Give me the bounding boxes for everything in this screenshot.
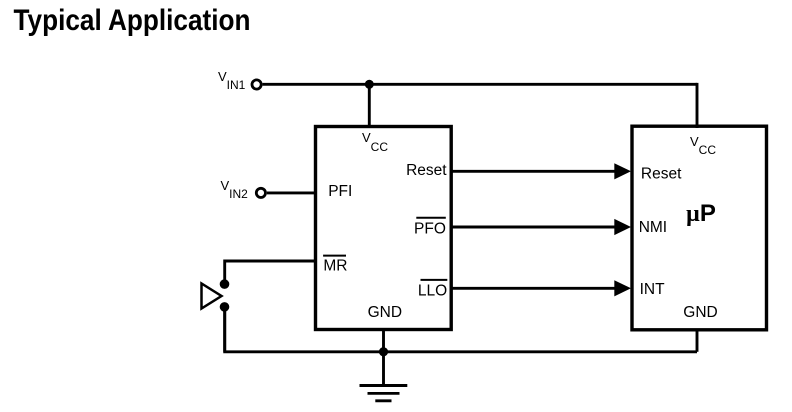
- overline for MR: [323, 255, 346, 257]
- ground symbol bar 2: [368, 392, 400, 395]
- wire VIN1 to VCC rail: [263, 83, 697, 86]
- svg-text:Typical Application: Typical Application: [14, 4, 251, 37]
- overline for LLO: [421, 279, 448, 281]
- svg-text:Reset: Reset: [406, 162, 447, 179]
- wire PFO output: [451, 226, 616, 229]
- wire ground rail to uP GND pin: [696, 330, 699, 352]
- ground symbol stem: [382, 352, 385, 386]
- pushbutton bottom contact dot: [220, 302, 230, 312]
- arrowhead Reset to uP: [614, 163, 631, 179]
- pushbutton actuator triangle: [202, 284, 222, 309]
- junction VCC node: [365, 80, 374, 89]
- wire supervisor GND pin to ground rail: [382, 330, 385, 352]
- svg-text:Reset: Reset: [641, 165, 682, 182]
- supervisor IC U1: [316, 127, 452, 330]
- wire ground rail: [225, 307, 697, 352]
- wire LLO output: [451, 287, 616, 290]
- overline for PFO: [416, 217, 446, 219]
- arrowhead LLO to INT: [614, 280, 631, 296]
- svg-text:LLO: LLO: [418, 283, 447, 300]
- svg-text:MR: MR: [323, 258, 347, 275]
- ground symbol bar 3: [375, 399, 391, 402]
- svg-text:GND: GND: [683, 304, 717, 321]
- wire VCC rail to uP VCC pin: [696, 84, 697, 128]
- pushbutton top contact dot: [220, 279, 230, 289]
- terminal VIN1: [252, 80, 261, 89]
- svg-text:PFI: PFI: [328, 183, 352, 200]
- wire VCC rail to supervisor VCC pin: [368, 84, 371, 128]
- wire pushbutton bottom contact to ground rail: [223, 307, 226, 352]
- arrowhead PFO to NMI: [614, 219, 631, 235]
- svg-text:NMI: NMI: [639, 219, 667, 236]
- svg-text:INT: INT: [640, 281, 666, 298]
- junction ground node: [379, 347, 388, 356]
- svg-text:PFO: PFO: [414, 220, 446, 237]
- terminal VIN2: [256, 188, 265, 197]
- wire Reset output: [451, 170, 616, 173]
- svg-text:µP: µP: [686, 200, 716, 227]
- microprocessor U2: [632, 126, 767, 330]
- wire VIN2 to PFI pin: [267, 191, 316, 194]
- ground symbol bar 1: [360, 384, 408, 387]
- wire MR pin to pushbutton top contact: [225, 261, 316, 284]
- svg-text:GND: GND: [368, 304, 402, 321]
